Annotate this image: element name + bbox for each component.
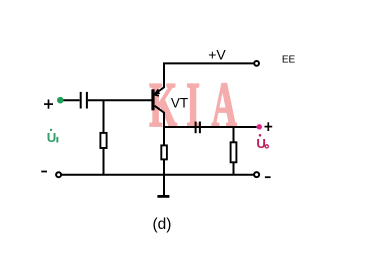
wire: R1 branch from base node	[103, 100, 105, 175]
wire: R3 branch from output node	[233, 127, 235, 175]
label - (bottom right)	[265, 176, 271, 178]
base bar	[151, 89, 154, 110]
resistor R2 (collector leg)	[161, 145, 167, 159]
emitter arrow	[154, 89, 160, 95]
capacitor C1 (input coupling)	[81, 92, 87, 109]
node: input + terminal dot	[57, 97, 64, 104]
wire: bottom common rail	[62, 174, 254, 176]
transistor VT	[153, 89, 160, 110]
svg-text:EE: EE	[282, 54, 296, 65]
resistor R1 (base bias)	[100, 133, 106, 148]
svg-text:U: U	[47, 130, 57, 145]
ground	[157, 175, 169, 197]
terminal +V (open circle)	[254, 61, 259, 66]
capacitor C2 (output coupling)	[196, 122, 200, 134]
resistor R3 (load)	[231, 142, 237, 162]
label - (bottom left)	[41, 171, 47, 173]
wire: base input	[88, 99, 152, 101]
svg-text:U: U	[256, 136, 266, 151]
terminal: bottom-right open circle	[254, 172, 259, 177]
wire: top supply rail	[163, 62, 254, 64]
wire: emitter up to rail	[155, 63, 164, 94]
wire: input from source dot to C1	[63, 99, 80, 101]
watermark KIA	[149, 70, 237, 141]
svg-text:VT: VT	[171, 95, 188, 110]
label Uo (output voltage)	[256, 134, 268, 151]
svg-text:+V: +V	[208, 47, 226, 63]
label Ui (input voltage)	[47, 129, 59, 146]
label + (output)	[265, 122, 273, 131]
wire: output rail	[164, 126, 257, 128]
svg-text:I: I	[186, 70, 200, 141]
terminal: bottom-left open circle	[56, 172, 61, 177]
wire: collector down	[155, 106, 164, 175]
svg-text:(d): (d)	[153, 216, 172, 233]
label + (input)	[44, 100, 53, 109]
node: output + terminal dot	[257, 124, 262, 129]
